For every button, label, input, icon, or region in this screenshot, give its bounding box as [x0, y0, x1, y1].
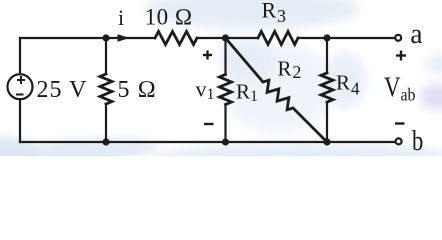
svg-text:a: a [410, 18, 422, 50]
svg-text:25 V: 25 V [37, 77, 88, 103]
wire left branch lower [19, 99, 21, 142]
polarity - for Vab [395, 122, 405, 124]
wire R4 branch upper [326, 38, 328, 73]
wire R1 branch upper [224, 38, 226, 75]
resistor 10 Ω (zigzag) [155, 32, 197, 45]
wire 5 Ω branch lower [105, 104, 107, 142]
resistor R1 (zigzag) [220, 75, 232, 105]
polarity + for Vab [396, 51, 406, 61]
node junction dot bottom of R1 [222, 138, 229, 145]
svg-text:5 Ω: 5 Ω [118, 77, 157, 103]
svg-text:b: b [412, 125, 423, 156]
resistor R4 (zigzag) [321, 73, 333, 102]
source polarity - mark [16, 94, 24, 96]
polarity - for v1 [204, 123, 214, 125]
wire R4 branch lower [326, 102, 328, 142]
polarity + for v1 [203, 51, 212, 60]
wire 5 Ω branch upper [105, 38, 107, 74]
source polarity + mark [17, 76, 25, 84]
terminal a (open circle) [395, 35, 401, 41]
svg-text:i: i [118, 5, 124, 30]
resistor R3 (zigzag) [258, 32, 298, 45]
decorative background swirl (not labelled content) [0, 0, 442, 185]
wire top rail middle segment [197, 37, 258, 39]
wire R1 branch lower [224, 105, 226, 143]
svg-text:10 Ω: 10 Ω [145, 5, 193, 30]
current arrow i [118, 34, 130, 42]
resistor 5 Ω (zigzag) [100, 74, 112, 104]
wire top rail right segment to terminal a [298, 37, 394, 39]
wire bottom rail [20, 141, 394, 143]
voltage source Vs 25 V [8, 74, 33, 99]
wire top rail left segment [20, 37, 155, 39]
node junction dot top of R1 [222, 34, 229, 41]
resistor R2 (diagonal with zigzag) [226, 38, 328, 142]
terminal b (open circle) [396, 138, 402, 144]
node junction dot bottom of R4 [323, 138, 330, 145]
node junction dot top of R4 [323, 34, 330, 41]
node junction dot bottom of 5 Ω [102, 138, 109, 145]
node junction dot top of 5 Ω [102, 34, 109, 41]
wire left branch upper [19, 38, 21, 74]
